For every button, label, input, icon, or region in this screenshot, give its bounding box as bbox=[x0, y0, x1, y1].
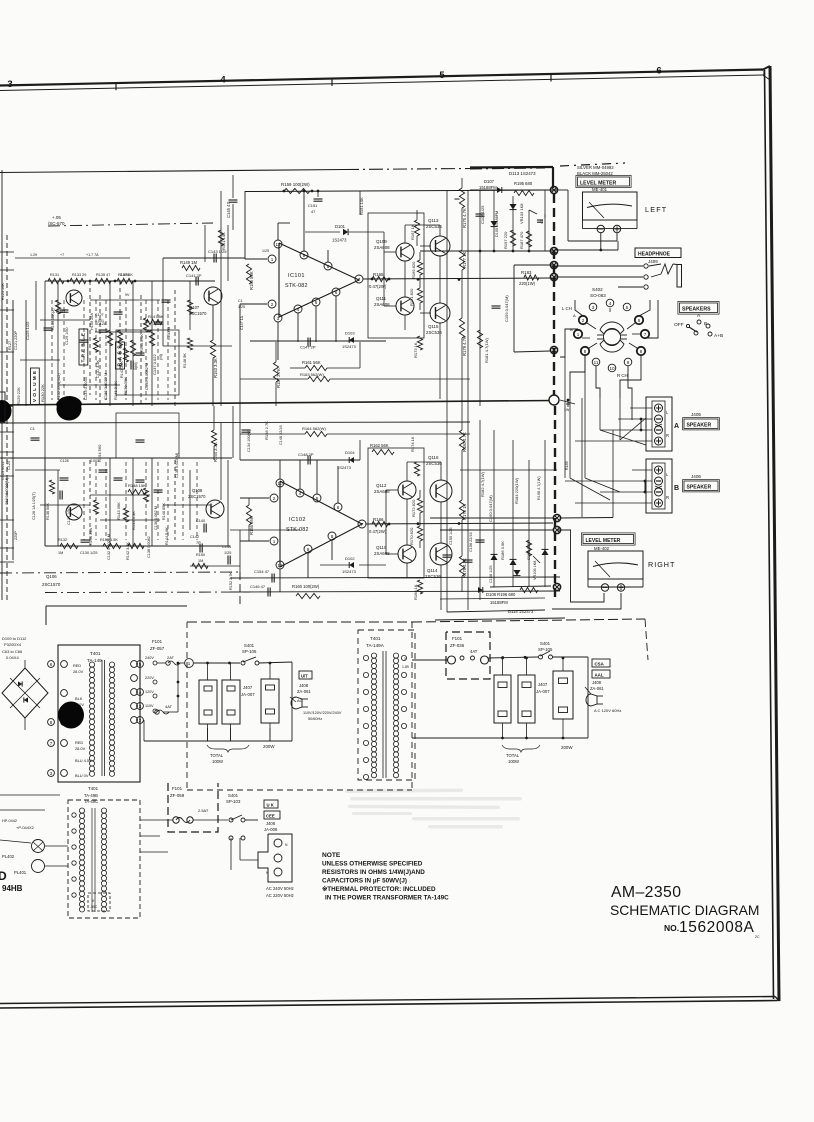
svg-text:8: 8 bbox=[331, 534, 334, 539]
svg-text:LEVEL METER: LEVEL METER bbox=[586, 538, 621, 544]
svg-text:R162 56K: R162 56K bbox=[370, 443, 389, 448]
svg-text:9V: 9V bbox=[125, 293, 130, 297]
svg-text:200W: 200W bbox=[263, 744, 275, 749]
svg-text:10: 10 bbox=[609, 366, 615, 371]
svg-text:JA-007: JA-007 bbox=[536, 689, 550, 694]
svg-text:J406: J406 bbox=[691, 474, 701, 479]
svg-text:Q112: Q112 bbox=[376, 483, 387, 488]
svg-text:C158 1/25: C158 1/25 bbox=[489, 565, 493, 583]
svg-text:(M): (M) bbox=[158, 353, 163, 360]
svg-text:R168 1K: R168 1K bbox=[413, 584, 418, 600]
svg-text:R174 1K: R174 1K bbox=[410, 436, 415, 452]
svg-text:9: 9 bbox=[303, 253, 306, 258]
svg-text:R148 5K: R148 5K bbox=[183, 353, 187, 368]
svg-text:BLU 0V: BLU 0V bbox=[75, 773, 89, 778]
svg-text:ME-402: ME-402 bbox=[594, 546, 610, 551]
svg-text:R184 220(1W): R184 220(1W) bbox=[514, 477, 519, 504]
svg-text:Q111: Q111 bbox=[376, 296, 387, 301]
svg-text:C126 1A 1/25(T): C126 1A 1/25(T) bbox=[32, 491, 36, 520]
svg-text:C131 3.3K: C131 3.3K bbox=[96, 360, 100, 378]
svg-text:R129 22K: R129 22K bbox=[16, 387, 21, 405]
svg-text:2.5AT: 2.5AT bbox=[198, 808, 209, 813]
svg-text:Q113: Q113 bbox=[428, 218, 439, 223]
svg-text:47: 47 bbox=[540, 220, 544, 224]
svg-text:1M: 1M bbox=[198, 559, 203, 563]
svg-text:C155 1/25: C155 1/25 bbox=[449, 527, 453, 545]
svg-text:VR103 1K8: VR103 1K8 bbox=[519, 203, 524, 224]
svg-text:AC 240V 50Hz: AC 240V 50Hz bbox=[266, 886, 294, 891]
svg-text:+1.7 7A: +1.7 7A bbox=[86, 253, 99, 257]
svg-text:J407: J407 bbox=[243, 685, 253, 690]
svg-text:R153 3.3K: R153 3.3K bbox=[213, 358, 218, 378]
svg-text:15188FM: 15188FM bbox=[490, 600, 508, 605]
svg-text:J408: J408 bbox=[592, 680, 602, 685]
svg-text:F101: F101 bbox=[172, 786, 183, 791]
svg-text:220P: 220P bbox=[14, 531, 18, 540]
svg-text:8: 8 bbox=[640, 349, 643, 354]
svg-text:200W: 200W bbox=[561, 745, 573, 750]
svg-text:U K: U K bbox=[267, 803, 274, 808]
svg-text:4: 4 bbox=[609, 301, 612, 306]
svg-text:7: 7 bbox=[358, 277, 361, 282]
svg-text:1S2473: 1S2473 bbox=[342, 344, 357, 349]
svg-text:R147 5K: R147 5K bbox=[148, 314, 164, 319]
svg-text:SO-063: SO-063 bbox=[590, 293, 606, 298]
svg-text:C133 M: C133 M bbox=[167, 327, 171, 340]
svg-text:3: 3 bbox=[139, 704, 142, 709]
svg-text:R157 2.7K: R157 2.7K bbox=[276, 368, 281, 388]
svg-text:J405: J405 bbox=[691, 412, 701, 417]
svg-text:SPEAKER: SPEAKER bbox=[687, 485, 712, 491]
svg-text:C136 0.082 M: C136 0.082 M bbox=[154, 506, 158, 530]
svg-text:R148 15K: R148 15K bbox=[128, 483, 146, 488]
svg-text:Q109: Q109 bbox=[376, 239, 387, 244]
svg-text:0.001: 0.001 bbox=[90, 459, 99, 463]
svg-text:D: D bbox=[0, 869, 7, 883]
svg-text:5: 5 bbox=[439, 70, 445, 81]
svg-text:C128: C128 bbox=[60, 459, 69, 463]
svg-text:6: 6 bbox=[638, 318, 641, 323]
svg-text:HEADPHNOE: HEADPHNOE bbox=[638, 252, 671, 258]
svg-text:220V: 220V bbox=[145, 676, 154, 680]
svg-text:2: 2 bbox=[139, 718, 142, 723]
svg-text:B: B bbox=[570, 327, 573, 332]
svg-text:1/25: 1/25 bbox=[238, 305, 245, 309]
svg-text:Q110: Q110 bbox=[376, 545, 387, 550]
svg-text:IN THE POWER TRANSFORMER TA-14: IN THE POWER TRANSFORMER TA-149C bbox=[325, 895, 449, 902]
svg-text:6: 6 bbox=[337, 505, 340, 510]
svg-text:RED: RED bbox=[73, 663, 81, 668]
svg-text:ME-401: ME-401 bbox=[592, 187, 608, 192]
svg-text:TREBLE: TREBLE bbox=[81, 331, 87, 362]
svg-text:2: 2 bbox=[582, 318, 585, 323]
svg-text:S401: S401 bbox=[244, 643, 255, 648]
svg-text:NOTE: NOTE bbox=[322, 852, 341, 859]
svg-text:T401: T401 bbox=[88, 786, 99, 791]
svg-text:C107 1/25: C107 1/25 bbox=[480, 205, 485, 224]
svg-text:VOLUME: VOLUME bbox=[32, 369, 38, 402]
svg-text:R160 100(2W): R160 100(2W) bbox=[292, 584, 320, 589]
svg-text:28.0V: 28.0V bbox=[73, 669, 84, 674]
svg-text:D102: D102 bbox=[345, 556, 355, 561]
svg-text:1: 1 bbox=[271, 257, 274, 262]
svg-text:R171 820: R171 820 bbox=[409, 288, 414, 306]
svg-text:R152 2SA(4X2): R152 2SA(4X2) bbox=[57, 373, 61, 400]
svg-text:4AT: 4AT bbox=[165, 704, 173, 709]
svg-text:HP-0442: HP-0442 bbox=[2, 819, 17, 823]
svg-text:C145 47: C145 47 bbox=[226, 201, 231, 218]
svg-text:B: B bbox=[674, 485, 679, 492]
svg-text:F101: F101 bbox=[452, 636, 463, 641]
svg-text:C154 47: C154 47 bbox=[254, 569, 270, 574]
svg-text:3: 3 bbox=[50, 771, 53, 776]
svg-text:C1: C1 bbox=[238, 299, 243, 303]
svg-text:A: A bbox=[573, 313, 576, 318]
svg-text:T401: T401 bbox=[370, 636, 381, 641]
svg-text:2SA608: 2SA608 bbox=[374, 551, 390, 556]
svg-text:Q116: Q116 bbox=[428, 455, 439, 460]
svg-text:0.04X4: 0.04X4 bbox=[6, 655, 19, 660]
svg-text:3: 3 bbox=[592, 305, 595, 310]
svg-text:11: 11 bbox=[594, 360, 599, 365]
svg-text:1M: 1M bbox=[58, 551, 63, 555]
svg-text:※THERMAL PROTECTOR: INCLUDED: ※THERMAL PROTECTOR: INCLUDED bbox=[322, 885, 436, 893]
svg-text:9: 9 bbox=[307, 547, 310, 552]
svg-text:5: 5 bbox=[139, 662, 142, 667]
svg-text:C160 0.047(M): C160 0.047(M) bbox=[488, 495, 493, 522]
svg-text:R158 2.7K: R158 2.7K bbox=[264, 421, 269, 440]
svg-text:R179 4.7K: R179 4.7K bbox=[462, 336, 467, 356]
svg-text:TOTAL: TOTAL bbox=[210, 753, 224, 758]
svg-text:S401: S401 bbox=[228, 793, 239, 798]
svg-text:100W: 100W bbox=[508, 759, 519, 764]
svg-text:J407: J407 bbox=[538, 682, 548, 687]
svg-text:R131: R131 bbox=[50, 273, 59, 277]
svg-text:C138 0.022(M): C138 0.022(M) bbox=[175, 452, 179, 478]
svg-text:100W: 100W bbox=[212, 759, 223, 764]
svg-text:R145 5.6K: R145 5.6K bbox=[140, 334, 144, 352]
svg-text:STK-082: STK-082 bbox=[285, 283, 308, 289]
svg-text:28.0V: 28.0V bbox=[75, 746, 86, 751]
svg-text:50/60Hz: 50/60Hz bbox=[308, 717, 322, 721]
svg-text:PL402: PL402 bbox=[2, 854, 15, 859]
svg-text:ZF-059: ZF-059 bbox=[170, 793, 185, 798]
svg-text:C132 0.0027 M: C132 0.0027 M bbox=[103, 373, 108, 400]
svg-text:2SA608: 2SA608 bbox=[374, 245, 390, 250]
svg-text:ZF-036: ZF-036 bbox=[450, 643, 465, 648]
svg-text:ZA-061: ZA-061 bbox=[297, 689, 311, 694]
svg-text:C137 0.022: C137 0.022 bbox=[152, 354, 157, 375]
svg-text:R136 56K: R136 56K bbox=[46, 503, 50, 520]
svg-text:1S2473: 1S2473 bbox=[337, 465, 352, 470]
svg-text:STK-082: STK-082 bbox=[286, 527, 309, 533]
svg-text:A+B: A+B bbox=[714, 333, 723, 339]
svg-text:IC101: IC101 bbox=[288, 273, 305, 279]
svg-text:OFF: OFF bbox=[674, 322, 684, 328]
svg-text:Q114: Q114 bbox=[427, 568, 438, 573]
svg-text:R177 1K: R177 1K bbox=[462, 251, 467, 268]
svg-text:R134 56K(2): R134 56K(2) bbox=[51, 308, 55, 330]
svg-text:R156 56K: R156 56K bbox=[249, 516, 254, 535]
svg-text:C130 1/25: C130 1/25 bbox=[80, 551, 98, 555]
svg-text:H159 29A: H159 29A bbox=[90, 313, 94, 330]
svg-text:2: 2 bbox=[273, 496, 276, 501]
svg-text:R186 3.9K: R186 3.9K bbox=[500, 541, 505, 560]
svg-text:R172 820: R172 820 bbox=[411, 499, 416, 517]
svg-text:D108 R196 680: D108 R196 680 bbox=[486, 592, 516, 597]
svg-text:C142: C142 bbox=[190, 535, 199, 539]
svg-text:C140: C140 bbox=[196, 519, 205, 523]
svg-text:SP-103: SP-103 bbox=[226, 799, 241, 804]
svg-text:R161 56K: R161 56K bbox=[302, 360, 321, 365]
svg-text:TA-149A: TA-149A bbox=[366, 643, 385, 648]
svg-text:R141 3.3K: R141 3.3K bbox=[113, 381, 118, 400]
svg-text:94HB: 94HB bbox=[2, 884, 23, 893]
svg-text:AC 220V 50Hz: AC 220V 50Hz bbox=[266, 893, 294, 898]
svg-text:13: 13 bbox=[277, 563, 283, 568]
svg-text:R130 22K: R130 22K bbox=[40, 384, 45, 402]
svg-text:R CH: R CH bbox=[617, 373, 628, 378]
svg-text:R164 562(W): R164 562(W) bbox=[302, 426, 326, 431]
svg-text:1S2473: 1S2473 bbox=[342, 569, 357, 574]
svg-text:D114 1S2473: D114 1S2473 bbox=[508, 609, 534, 614]
svg-text:R139 39K: R139 39K bbox=[123, 377, 128, 395]
svg-text:110V/120V/220V/240V: 110V/120V/220V/240V bbox=[303, 711, 342, 715]
svg-text:3: 3 bbox=[7, 79, 12, 90]
svg-text:C148 2P: C148 2P bbox=[298, 452, 314, 457]
svg-text:5(M): 5(M) bbox=[134, 361, 138, 370]
svg-text:C125 1/25: C125 1/25 bbox=[25, 321, 30, 340]
svg-text:J408: J408 bbox=[299, 683, 309, 688]
svg-text:CSA: CSA bbox=[595, 662, 605, 667]
svg-text:8: 8 bbox=[584, 349, 587, 354]
svg-text:2C: 2C bbox=[755, 935, 760, 939]
svg-text:R125 10K: R125 10K bbox=[1, 283, 5, 300]
svg-text:2: 2 bbox=[271, 302, 274, 307]
svg-text:C129 1/50: C129 1/50 bbox=[65, 327, 69, 345]
svg-text:C135 0.0082 M: C135 0.0082 M bbox=[144, 363, 149, 390]
svg-text:+7: +7 bbox=[60, 253, 64, 257]
svg-text:S402: S402 bbox=[592, 287, 603, 292]
svg-text:BLK: BLK bbox=[75, 696, 83, 701]
svg-text:R173 1K: R173 1K bbox=[413, 342, 418, 358]
svg-text:R135 47: R135 47 bbox=[96, 273, 110, 277]
svg-text:15188FM: 15188FM bbox=[479, 185, 497, 190]
svg-text:L CH: L CH bbox=[562, 306, 572, 311]
svg-text:T401: T401 bbox=[90, 651, 101, 656]
svg-text:C156 22/16: C156 22/16 bbox=[469, 532, 473, 552]
svg-text:RIGHT: RIGHT bbox=[648, 560, 675, 569]
svg-text:JA-007: JA-007 bbox=[241, 692, 255, 697]
svg-text:R151 10K: R151 10K bbox=[359, 197, 364, 215]
svg-text:IC102: IC102 bbox=[289, 517, 306, 523]
svg-text:R133 29: R133 29 bbox=[72, 273, 86, 277]
svg-text:R175 4.7K: R175 4.7K bbox=[462, 208, 467, 228]
svg-text:R140 39A: R140 39A bbox=[89, 528, 93, 545]
svg-text:R: R bbox=[666, 495, 669, 500]
svg-text:4: 4 bbox=[139, 690, 142, 695]
svg-text:2AT: 2AT bbox=[167, 655, 175, 660]
svg-text:Q108: Q108 bbox=[192, 488, 203, 493]
svg-text:1/25: 1/25 bbox=[262, 249, 269, 253]
svg-text:R187 470: R187 470 bbox=[519, 231, 524, 249]
svg-text:SP-105: SP-105 bbox=[242, 649, 257, 654]
svg-text:6: 6 bbox=[50, 662, 53, 667]
svg-text:R195 680: R195 680 bbox=[514, 181, 533, 186]
svg-text:5: 5 bbox=[316, 496, 319, 501]
svg-text:C141 7P: C141 7P bbox=[186, 273, 202, 278]
svg-text:R170 820: R170 820 bbox=[409, 527, 414, 545]
svg-text:VR106 1K8: VR106 1K8 bbox=[533, 561, 537, 580]
svg-text:1: 1 bbox=[273, 539, 276, 544]
svg-text:D113 1S2473: D113 1S2473 bbox=[509, 171, 536, 176]
svg-text:R180 4.7K: R180 4.7K bbox=[462, 432, 467, 452]
svg-text:12: 12 bbox=[275, 242, 281, 247]
svg-text:LEFT: LEFT bbox=[645, 205, 667, 214]
svg-text:C123 6012: C123 6012 bbox=[1, 461, 5, 480]
svg-text:C147 2P: C147 2P bbox=[300, 345, 316, 350]
svg-text:D105 15188FM: D105 15188FM bbox=[495, 211, 499, 237]
svg-text:4: 4 bbox=[299, 491, 302, 496]
svg-text:SP-105: SP-105 bbox=[538, 647, 553, 652]
svg-text:R149 1M: R149 1M bbox=[180, 260, 198, 265]
svg-text:4AT: 4AT bbox=[470, 649, 478, 654]
svg-text:SCHEMATIC DIAGRAM: SCHEMATIC DIAGRAM bbox=[610, 902, 759, 918]
svg-text:TA-49B: TA-49B bbox=[84, 793, 98, 798]
svg-text:R178 1K: R178 1K bbox=[462, 503, 467, 520]
svg-text:6: 6 bbox=[656, 66, 661, 77]
svg-text:F101: F101 bbox=[152, 639, 163, 644]
svg-text:C124: C124 bbox=[7, 461, 11, 470]
svg-text:C151: C151 bbox=[308, 203, 317, 208]
svg-text:C121 220P: C121 220P bbox=[14, 331, 18, 350]
svg-text:1-89: 1-89 bbox=[402, 665, 409, 669]
svg-text:6: 6 bbox=[335, 290, 338, 295]
svg-text:R159 100(2W): R159 100(2W) bbox=[281, 182, 310, 187]
svg-text:220(1W): 220(1W) bbox=[519, 281, 536, 286]
svg-text:D107: D107 bbox=[484, 179, 495, 184]
svg-text:AM–2350: AM–2350 bbox=[611, 884, 681, 901]
svg-text:C63 to C66: C63 to C66 bbox=[2, 649, 23, 654]
svg-text:C132 0.0027 M: C132 0.0027 M bbox=[107, 534, 111, 560]
svg-text:D103: D103 bbox=[345, 331, 355, 336]
svg-text:R155 56K: R155 56K bbox=[249, 271, 254, 290]
svg-text:R197 220: R197 220 bbox=[503, 231, 508, 249]
svg-text:S401: S401 bbox=[540, 641, 551, 646]
svg-text:110V: 110V bbox=[145, 704, 154, 708]
svg-text:1.29: 1.29 bbox=[30, 253, 37, 257]
svg-text:D109 to D112: D109 to D112 bbox=[2, 636, 27, 641]
svg-text:C146 47: C146 47 bbox=[250, 584, 266, 589]
svg-text:2SC1570: 2SC1570 bbox=[42, 582, 61, 587]
svg-text:JA-006: JA-006 bbox=[264, 827, 278, 832]
svg-text:TOTAL: TOTAL bbox=[506, 753, 520, 758]
svg-text:3: 3 bbox=[277, 316, 280, 321]
svg-text:Q115: Q115 bbox=[428, 324, 439, 329]
svg-text:U/T: U/T bbox=[301, 674, 308, 679]
svg-text:R127: R127 bbox=[8, 341, 12, 350]
svg-text:AC: AC bbox=[297, 698, 303, 703]
svg-text:RED: RED bbox=[75, 740, 83, 745]
svg-text:J409: J409 bbox=[648, 259, 658, 264]
svg-text:C1: C1 bbox=[30, 427, 35, 431]
svg-text:RESISTORS IN OHMS 1/4W(J)AND: RESISTORS IN OHMS 1/4W(J)AND bbox=[322, 869, 425, 876]
svg-text:AAL: AAL bbox=[595, 673, 604, 678]
svg-text:2SC536: 2SC536 bbox=[425, 574, 441, 579]
svg-text:R151 10K: R151 10K bbox=[221, 232, 226, 250]
svg-text:SPEAKERS: SPEAKERS bbox=[682, 307, 711, 313]
svg-text:4: 4 bbox=[297, 307, 300, 312]
svg-text:120V: 120V bbox=[145, 690, 154, 694]
svg-text:D104: D104 bbox=[345, 450, 355, 455]
svg-text:BLU 4.5V: BLU 4.5V bbox=[75, 758, 92, 763]
svg-text:1: 1 bbox=[188, 661, 191, 666]
svg-text:C124 0.0022(M): C124 0.0022(M) bbox=[5, 477, 9, 505]
svg-text:ZF-057: ZF-057 bbox=[150, 646, 165, 651]
svg-text:/SC-570: /SC-570 bbox=[48, 221, 65, 226]
svg-text:1/25: 1/25 bbox=[224, 551, 231, 555]
svg-text:240V: 240V bbox=[145, 656, 154, 660]
svg-text:R132: R132 bbox=[58, 538, 67, 542]
svg-text:NO.: NO. bbox=[664, 923, 679, 933]
svg-text:1562008A: 1562008A bbox=[679, 919, 755, 936]
svg-text:R144 5.6K: R144 5.6K bbox=[165, 527, 169, 545]
svg-text:7: 7 bbox=[361, 522, 364, 527]
svg-text:+P-044X2: +P-044X2 bbox=[16, 825, 35, 830]
svg-text:C129 1/50: C129 1/50 bbox=[67, 507, 71, 525]
svg-text:4: 4 bbox=[220, 75, 226, 86]
svg-text:47: 47 bbox=[311, 209, 315, 214]
svg-text:9: 9 bbox=[627, 360, 630, 365]
svg-text:10: 10 bbox=[277, 481, 283, 486]
svg-text:R142 3.3K: R142 3.3K bbox=[126, 542, 130, 560]
svg-text:D101: D101 bbox=[335, 224, 346, 229]
svg-text:R181 4.7(1W): R181 4.7(1W) bbox=[484, 337, 489, 363]
svg-text:C147 1A: C147 1A bbox=[240, 315, 244, 330]
svg-text:R143 39K: R143 39K bbox=[120, 361, 124, 378]
svg-text:7: 7 bbox=[50, 741, 53, 746]
svg-text:5: 5 bbox=[626, 305, 629, 310]
svg-text:R176 4.7K: R176 4.7K bbox=[462, 558, 467, 578]
svg-text:R169 820: R169 820 bbox=[411, 261, 416, 279]
svg-text:A C 120V 60Hz: A C 120V 60Hz bbox=[594, 708, 621, 713]
svg-text:ZA-061: ZA-061 bbox=[590, 686, 604, 691]
svg-text:C143 1/25: C143 1/25 bbox=[208, 249, 227, 254]
svg-text:R143 39K: R143 39K bbox=[116, 502, 121, 520]
svg-text:R152 2.7K: R152 2.7K bbox=[229, 572, 233, 590]
svg-text:R150: R150 bbox=[196, 553, 205, 557]
svg-text:Q106: Q106 bbox=[46, 574, 57, 579]
svg-text:LEVEL METER: LEVEL METER bbox=[580, 181, 616, 187]
svg-text:-59C: -59C bbox=[90, 905, 98, 909]
svg-text:R189: R189 bbox=[565, 461, 569, 470]
svg-text:R167 1K: R167 1K bbox=[410, 224, 415, 240]
svg-text:A: A bbox=[674, 423, 679, 430]
svg-text:7: 7 bbox=[644, 332, 647, 337]
svg-text:1S2473: 1S2473 bbox=[332, 238, 347, 243]
svg-text:J408: J408 bbox=[266, 821, 276, 826]
svg-text:R163 562(W): R163 562(W) bbox=[300, 372, 324, 377]
svg-text:TA-149: TA-149 bbox=[87, 658, 102, 663]
svg-text:0.47(2W): 0.47(2W) bbox=[369, 529, 387, 534]
svg-text:CEE: CEE bbox=[266, 814, 275, 819]
svg-text:PL401: PL401 bbox=[14, 870, 27, 875]
svg-text:R: R bbox=[666, 433, 669, 438]
svg-text:CAPACITORS IN µF 50WV(J): CAPACITORS IN µF 50WV(J) bbox=[322, 878, 407, 885]
svg-text:0.008: 0.008 bbox=[120, 273, 129, 277]
svg-text:C146 22/16: C146 22/16 bbox=[279, 425, 283, 445]
svg-text:R182 4.7(1W): R182 4.7(1W) bbox=[480, 471, 485, 497]
